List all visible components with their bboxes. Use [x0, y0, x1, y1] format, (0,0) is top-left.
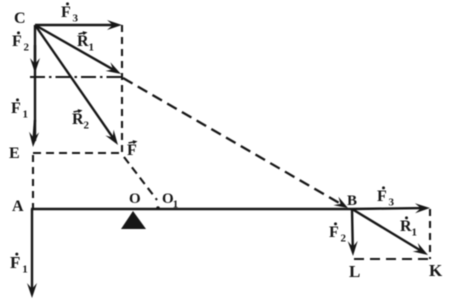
svg-text:1: 1	[173, 199, 179, 211]
svg-text:1: 1	[89, 42, 95, 54]
svg-text:F: F	[10, 253, 20, 272]
svg-text:F: F	[12, 33, 22, 50]
svg-text:F: F	[377, 188, 387, 205]
svg-text:R: R	[400, 218, 412, 235]
svg-text:A: A	[12, 198, 24, 215]
svg-text:1: 1	[412, 227, 418, 239]
svg-text:F: F	[11, 100, 21, 117]
svg-text:E: E	[9, 145, 20, 162]
svg-text:B: B	[347, 193, 357, 209]
svg-text:1: 1	[22, 264, 28, 276]
svg-text:F: F	[329, 224, 339, 241]
svg-text:C: C	[14, 10, 26, 27]
svg-text:F: F	[61, 4, 71, 21]
svg-text:2: 2	[84, 120, 90, 132]
svg-text:R: R	[72, 111, 84, 128]
svg-text:3: 3	[389, 197, 395, 209]
svg-text:O: O	[129, 191, 141, 207]
svg-text:K: K	[429, 261, 443, 280]
svg-text:1: 1	[23, 109, 29, 121]
svg-text:L: L	[349, 262, 360, 281]
svg-text:2: 2	[341, 233, 347, 245]
svg-text:3: 3	[73, 13, 79, 25]
svg-text:2: 2	[24, 42, 30, 54]
svg-text:R: R	[77, 33, 89, 50]
svg-text:F: F	[127, 142, 137, 159]
